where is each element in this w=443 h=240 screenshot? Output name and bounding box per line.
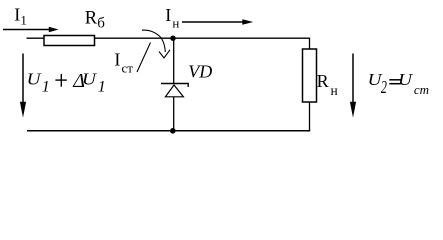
wire: Rn bottom lead	[309, 102, 311, 131]
zener diode VD: cathode bar with right-end tick	[161, 84, 188, 88]
zener diode VD: anode triangle	[165, 85, 183, 97]
svg-text:1: 1	[42, 79, 50, 96]
svg-text:U: U	[82, 70, 98, 89]
label U1 + dU1	[27, 70, 106, 96]
svg-text:1: 1	[98, 79, 106, 96]
wire: zener branch upper lead	[173, 38, 175, 83]
wire: right corner drop into Rn	[309, 38, 311, 50]
svg-text:U: U	[398, 70, 414, 89]
node: top junction dot	[170, 36, 175, 41]
leader line from Ist label to curved arrow	[137, 43, 151, 73]
node: bottom junction dot	[170, 128, 176, 134]
svg-text:ст: ст	[122, 60, 134, 75]
svg-text:R: R	[85, 9, 98, 29]
current arrow I1 (input current, points right)	[3, 27, 59, 32]
svg-text:н: н	[172, 15, 179, 30]
svg-text:б: б	[97, 16, 105, 32]
label Rb	[85, 9, 105, 32]
label Ist	[114, 50, 133, 76]
svg-text:I: I	[14, 5, 20, 25]
svg-text:2: 2	[381, 79, 387, 98]
resistor Rb (ballast) body	[44, 36, 95, 46]
svg-text:I: I	[165, 5, 171, 25]
label U2 = Ust	[368, 70, 429, 98]
label Rn	[317, 71, 338, 98]
label In	[165, 5, 179, 30]
current arrow Ist (curved arrow into zener)	[142, 30, 170, 58]
label I1	[14, 5, 27, 28]
svg-text:I: I	[114, 50, 120, 70]
svg-text:U: U	[27, 70, 43, 89]
voltage arrow U1 (input voltage, points down)	[20, 54, 26, 118]
voltage arrow U2 (output voltage, points down)	[350, 54, 356, 118]
wire: zener branch lower lead	[173, 97, 175, 131]
svg-text:1: 1	[20, 12, 27, 27]
wire: top rail left segment into Rb	[27, 37, 46, 39]
svg-text:ст: ст	[414, 82, 429, 97]
wire: bottom rail	[27, 130, 310, 132]
wire: top rail from Rb to right corner	[94, 37, 310, 39]
label VD	[188, 62, 212, 82]
svg-text:R: R	[317, 71, 329, 91]
current arrow In (load current, points right)	[182, 19, 253, 25]
resistor Rn (load) body	[303, 49, 317, 102]
svg-text:н: н	[331, 83, 338, 98]
svg-text:VD: VD	[188, 62, 212, 82]
